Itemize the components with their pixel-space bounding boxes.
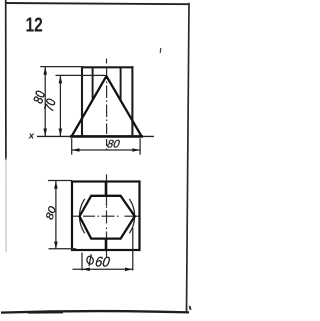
circle arc left (d60 circle): [79, 199, 84, 233]
dimension 80 left: dimension line: [44, 67, 46, 137]
border frame right: [187, 3, 190, 312]
circle arc right (d60 circle): [129, 199, 134, 233]
prism edge bottom (thick segment hexagon-to-square): [105, 239, 108, 251]
dimension d60: extension line right: [132, 228, 134, 271]
dimension d60: dimension line: [73, 268, 133, 270]
dimension 80 bottom: dimension line: [72, 149, 140, 151]
dimension 80 top view: extension line top: [48, 180, 72, 182]
hexagon top view: [80, 196, 135, 239]
stray mark top right: [159, 48, 161, 53]
prism inner edge left: [92, 67, 94, 100]
border frame bottom: [1, 311, 189, 313]
svg-text:60: 60: [94, 254, 111, 269]
svg-text:x: x: [28, 131, 35, 142]
centerline vertical top view: [106, 174, 108, 257]
prism rectangle front view: [81, 66, 133, 136]
prism inner edge right: [120, 67, 122, 100]
dimension 80 bottom: extension lines: [71, 138, 73, 154]
square top view: [72, 182, 140, 251]
dimension 80 left: extension line top: [40, 66, 82, 68]
dimension 70: dimension line: [59, 76, 61, 137]
prism edge top (thick segment square-to-hexagon): [105, 182, 108, 196]
x-axis line: [37, 135, 154, 137]
dimension 70: extension line top: [56, 74, 106, 76]
centerline front view: [106, 59, 108, 151]
border frame left: [5, 0, 7, 160]
dimension d60: diameter symbol: [86, 254, 95, 266]
dimension 80 top view: dimension line: [55, 181, 57, 249]
corner blob bottom right: [189, 305, 192, 310]
dimension 80 top view: extension line bottom: [49, 248, 77, 250]
centerline horizontal top view: [73, 215, 141, 217]
cone triangle front view: [72, 76, 142, 136]
border frame top: [5, 3, 189, 4]
dimension d60: extension line left: [81, 253, 83, 271]
svg-text:12: 12: [26, 13, 43, 36]
